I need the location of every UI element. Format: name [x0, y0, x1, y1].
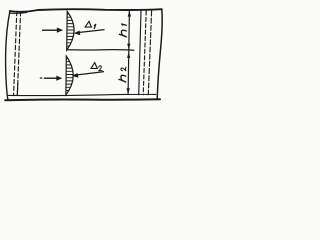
bulge 1 hatching: [65, 14, 78, 49]
datum line between bulges: [67, 49, 134, 52]
frame right edge: [157, 9, 162, 99]
frame bottom thick line: [5, 99, 160, 100]
right solid stiffener line: [139, 11, 141, 95]
left dashed stiffener line B: [17, 12, 20, 95]
dimension arrowheads h2: [127, 52, 131, 94]
frame left edge: [6, 11, 10, 100]
left dashed stiffener line A: [14, 12, 17, 95]
frame top-left corner stub: [10, 11, 27, 14]
leader line with arrow for bulge 1 (right): [74, 30, 105, 36]
left line B solid lower end: [16, 84, 19, 95]
bulge 1 outline: [67, 11, 74, 50]
right dashed stiffener line 1: [143, 11, 146, 95]
arrow pointing at bulge 2 (left): [40, 76, 63, 81]
leader line with arrow for bulge 2 (right): [72, 72, 104, 78]
frame top edge: [10, 9, 162, 12]
arrow pointing at bulge 1 (left): [42, 28, 63, 33]
label delta-2: [91, 63, 102, 71]
dimension arrowheads h1: [127, 10, 131, 49]
bulge 2 hatching: [64, 59, 78, 94]
label h1 (rotated): [119, 24, 126, 37]
frame bottom thin line: [8, 94, 156, 95]
dimension line h1-h2: [128, 11, 129, 95]
bulge 2 outline: [66, 56, 73, 95]
label delta-1: [85, 21, 96, 28]
right dashed stiffener line 2: [148, 11, 151, 95]
label h2 (rotated): [119, 67, 126, 82]
